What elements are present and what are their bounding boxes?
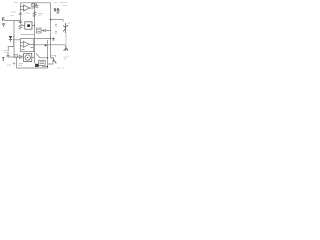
node terminal dark mark: [2, 57, 4, 61]
label text right 1: [55, 25, 57, 35]
wire bottom-left horizontal y=57: [8, 56, 20, 58]
label text left-low faint: [4, 51, 10, 53]
wire center bus x=34.5: [34, 3, 36, 64]
wire right bus x=50.5: [50, 3, 52, 58]
label plus mark: [13, 62, 16, 65]
wire bottom bus: [17, 67, 48, 69]
label text bottom right faint: [57, 57, 69, 68]
wire lower-left vertical: [16, 57, 18, 68]
wire bottom horizontal y=66.5: [42, 66, 48, 68]
label small marks under triangle: [26, 12, 30, 14]
transistor Q2 lower right: [64, 45, 68, 51]
transistor Q3 bottom: [51, 58, 57, 64]
diode D2 at x=8: [7, 53, 10, 57]
wire left op-amp vertical: [19, 3, 21, 24]
wire diagonal to lower box: [36, 54, 48, 58]
node junction blob: [45, 44, 47, 46]
wire bottom right step: [48, 60, 54, 64]
diode D1 dark: [9, 36, 14, 47]
capacitor C5 mid: [41, 29, 51, 32]
wire mid horizontal y=38.5: [35, 38, 51, 40]
box F1 with lines: [37, 28, 42, 33]
node input terminal: [3, 18, 5, 21]
op-amp U1: [20, 5, 34, 11]
label right faint: [67, 22, 70, 24]
label small text top-left: [11, 3, 18, 16]
node dots: [34, 19, 51, 67]
resistor R2 zigzag in center bus: [33, 12, 36, 17]
wire branch x=47.5: [47, 40, 49, 68]
diode D3 before meter: [20, 55, 23, 58]
label x mark under 5.5: [57, 12, 59, 14]
label text near R2: [38, 14, 43, 16]
wire top bus: [20, 2, 50, 4]
node dark terminal box at bus end: [35, 64, 39, 67]
label text near Q3: [51, 56, 56, 58]
wire right vertical x=66 faint: [65, 33, 67, 45]
capacitor C4 on op-amp input line: [19, 21, 23, 22]
resistor R3 zigzag: [19, 24, 22, 29]
op-amp U2 in box: [20, 39, 34, 52]
transistor Q1 right: [63, 23, 68, 33]
capacitor C6 below op-amp: [19, 13, 22, 14]
wire right horizontal y=44.8: [34, 44, 65, 46]
wire right horizontal y=19.5: [51, 19, 64, 21]
wire tick at 63: [62, 20, 64, 22]
label 5.5: [54, 9, 59, 11]
capacitor C2 from top bus: [35, 3, 39, 7]
wire left vertical x=14: [13, 21, 15, 58]
wire stub to op-amp box: [14, 39, 20, 41]
wire meter out: [32, 56, 35, 58]
crystal Y1 box with element: [22, 22, 35, 29]
resistor R1 feedback box: [32, 4, 35, 6]
label text bottom-left faint: [7, 64, 23, 66]
label dark t mark at bus junction: [52, 38, 54, 41]
wire input horizontal y=20.5: [4, 20, 20, 22]
resistor R4 box: [14, 55, 18, 58]
meter M1: [24, 53, 32, 61]
capacitor C3 left terminal: [2, 23, 5, 27]
wire step left: [8, 47, 14, 52]
wire lower horizontal y=34.5: [21, 34, 35, 36]
transformer T1 box: [39, 60, 46, 65]
label top faint text: [54, 2, 68, 5]
